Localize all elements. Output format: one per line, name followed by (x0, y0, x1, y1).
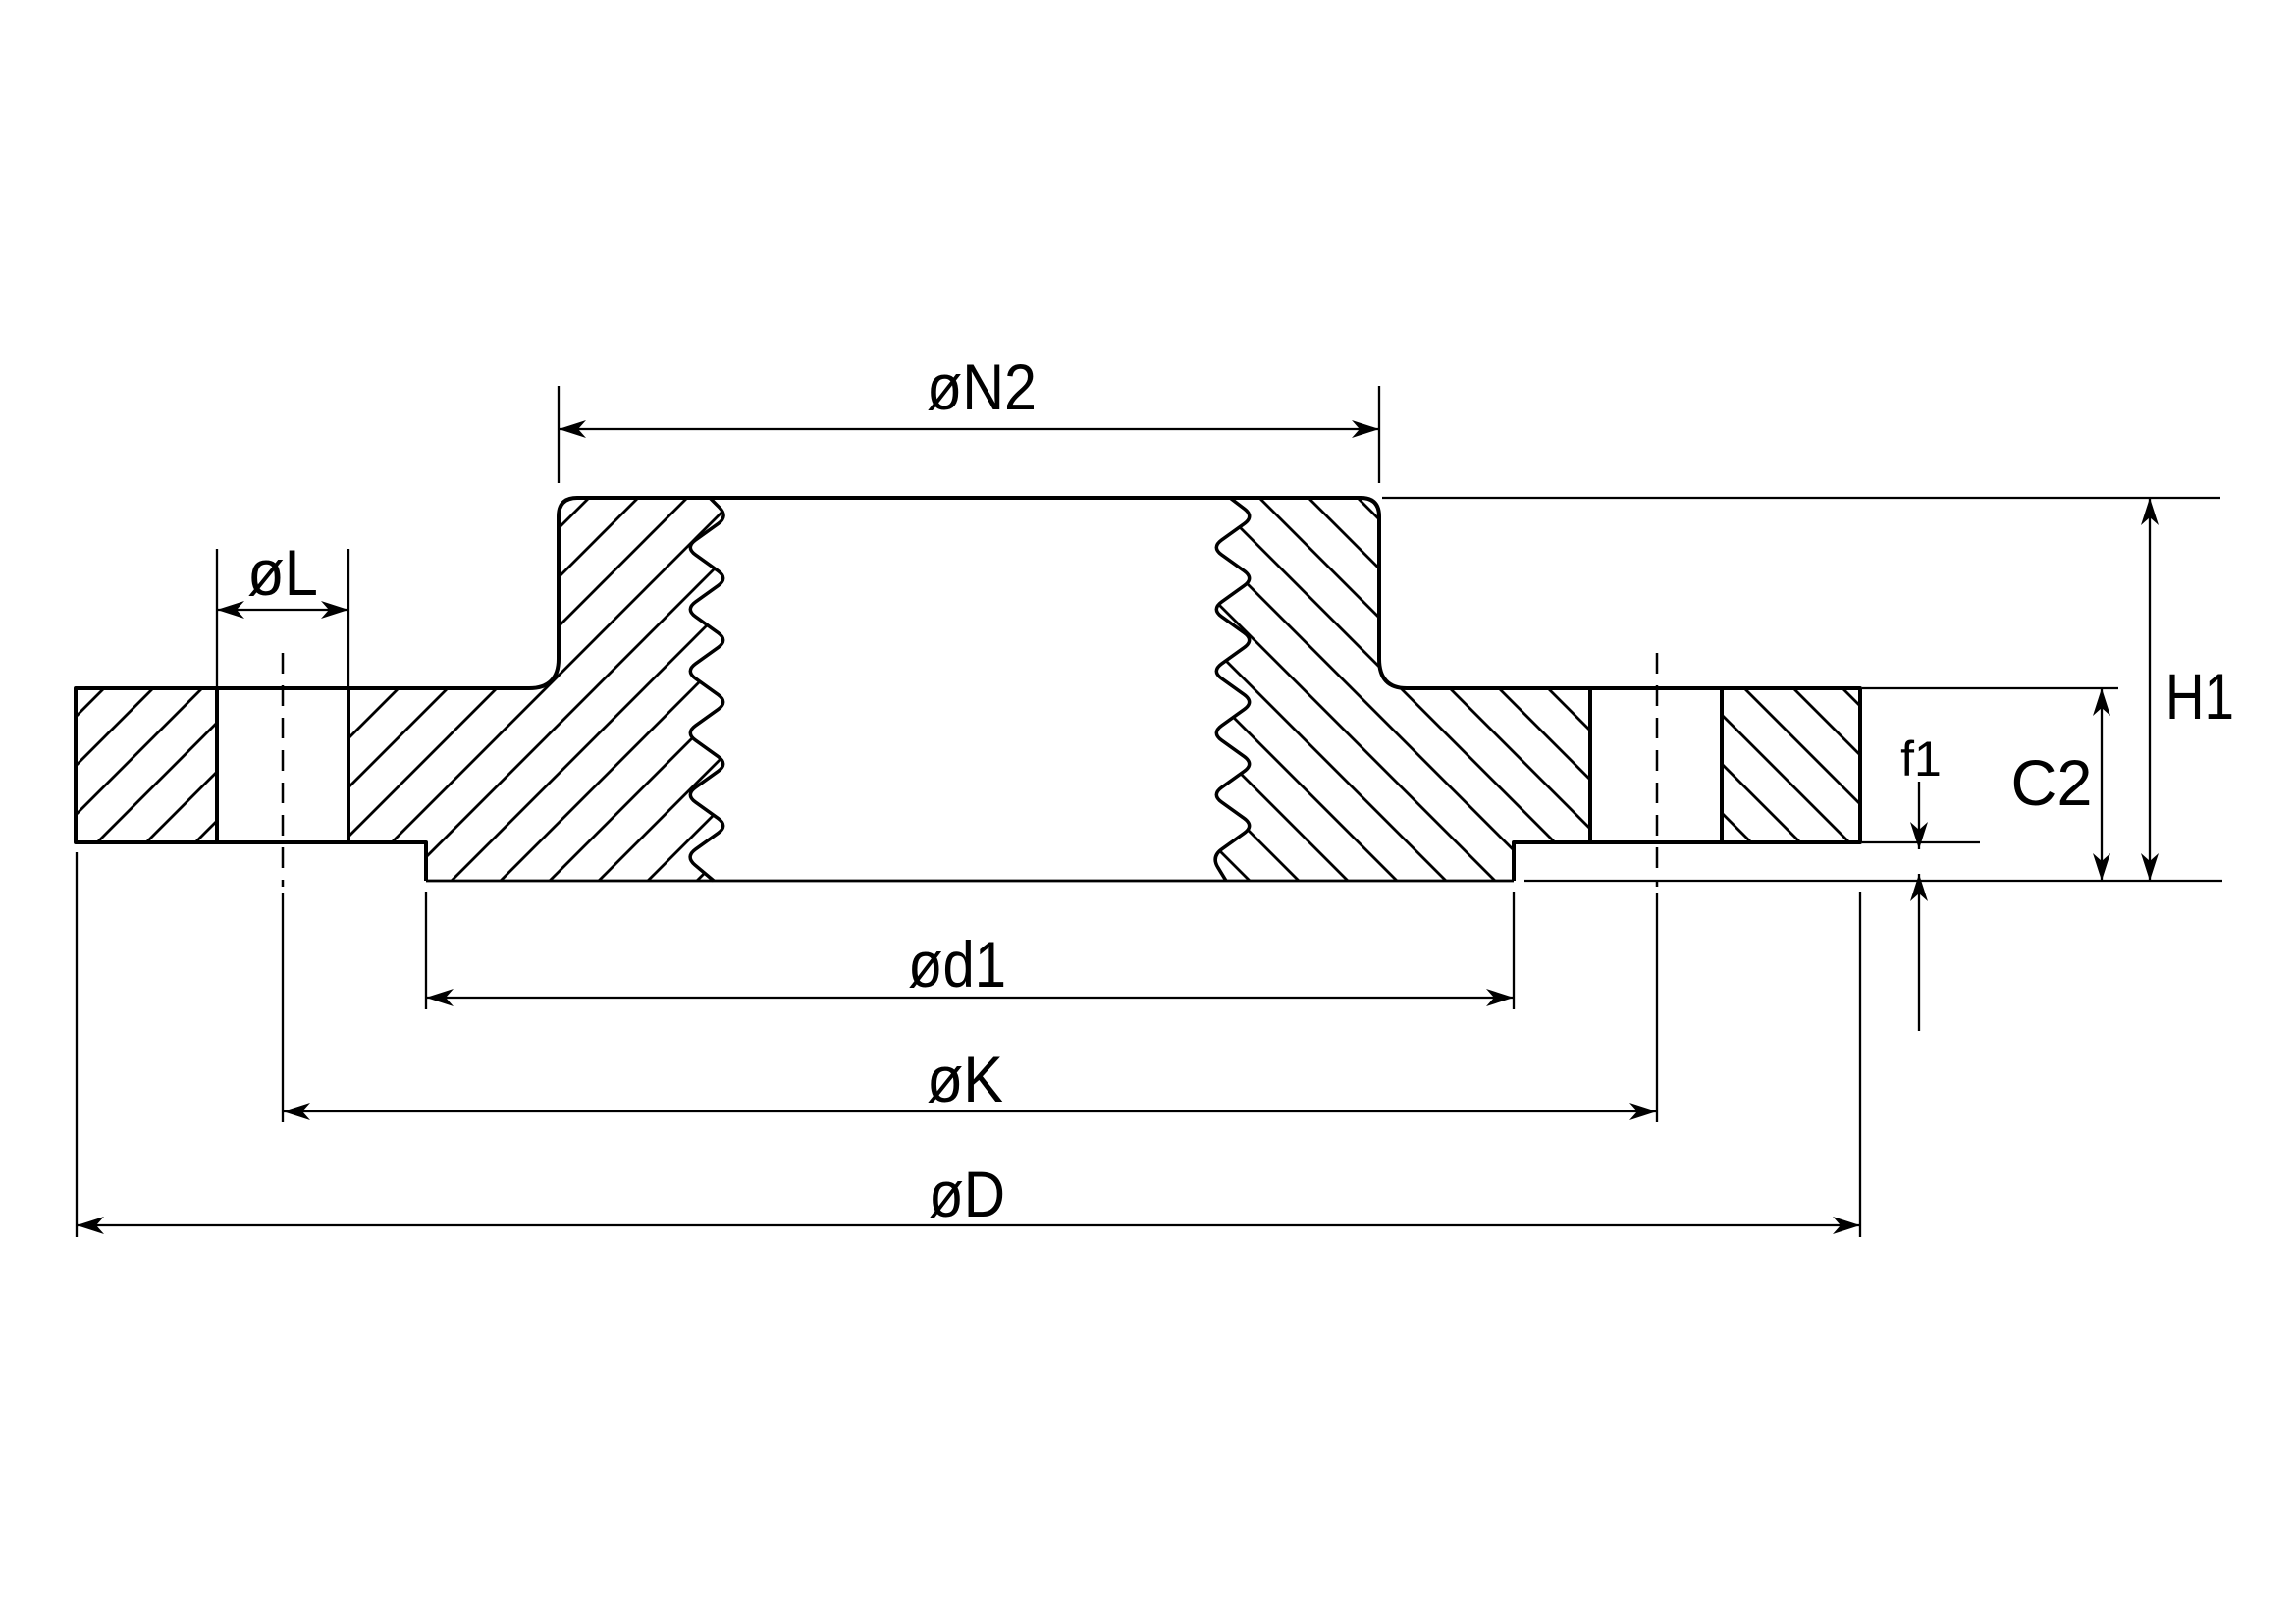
svg-text:f1: f1 (1900, 731, 1942, 786)
dimension ød1 (426, 892, 1514, 1009)
dimension øK (283, 893, 1657, 1122)
dimension C2 (2101, 688, 2103, 881)
dimension H1 (2149, 498, 2151, 881)
dimension øD (77, 852, 1860, 1237)
flange body outline (76, 498, 1860, 881)
hatched section: left outer flange ring (76, 688, 217, 842)
svg-text:øN2: øN2 (927, 351, 1037, 423)
hatched section: right hub wall (1215, 498, 1590, 881)
dimension øL (217, 549, 348, 687)
dimension f1 (1918, 782, 1920, 849)
svg-text:øD: øD (929, 1158, 1005, 1230)
f1 upper reference line (flange bottom extension) (1862, 841, 1980, 843)
left bolt hole øL edges (217, 688, 348, 842)
internal thread profile right (1215, 498, 1250, 881)
dimension øN2 (559, 386, 1379, 483)
left bolt hole centerline (282, 653, 285, 887)
hatched section: right outer flange ring (1722, 688, 1860, 842)
hatched section: left hub wall (348, 498, 723, 881)
right bolt hole edges (1590, 688, 1722, 842)
H1 top reference line (hub top extension) (1382, 497, 2220, 499)
svg-text:C2: C2 (2011, 746, 2093, 819)
internal thread profile left (690, 498, 723, 881)
svg-text:ød1: ød1 (908, 928, 1006, 1001)
C2 top reference line (flange top extension) (1862, 687, 2118, 689)
svg-text:øL: øL (247, 536, 318, 609)
raised face bottom line (426, 880, 1514, 883)
svg-text:H1: H1 (2165, 660, 2234, 732)
right bolt hole centerline (1656, 653, 1659, 887)
bottom reference line (raised face extension) (1524, 880, 2222, 882)
svg-text:øK: øK (927, 1043, 1003, 1115)
